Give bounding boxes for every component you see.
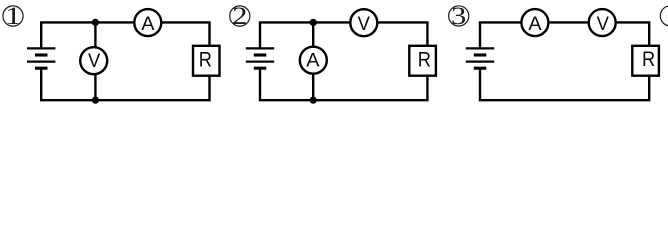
voltmeter V (circuit 2) [350, 9, 377, 36]
circuit 1 : top wire [41, 22, 209, 48]
circuit 2 : top wire [260, 22, 427, 48]
resistor R (circuit 3) [632, 46, 659, 76]
ammeter A (circuit 3) [521, 9, 548, 36]
svg-text:R: R [642, 48, 655, 72]
label circled 3 [449, 2, 469, 30]
svg-text:A: A [141, 13, 155, 35]
node junction 1 bottom [92, 97, 99, 104]
voltmeter V (circuit 3) [589, 9, 616, 36]
battery B3 [466, 48, 494, 68]
svg-text:R: R [418, 48, 431, 72]
svg-text:A: A [528, 13, 542, 35]
svg-text:1: 1 [5, 2, 21, 30]
circuit 2 : bottom wire [260, 68, 427, 100]
label circled 4 (partial at right edge) [660, 6, 668, 26]
resistor R (circuit 2) [409, 46, 436, 76]
ammeter A (circuit 1) [134, 9, 161, 36]
circuit 1 : bottom wire [41, 68, 209, 100]
voltmeter V (circuit 1) [80, 47, 107, 74]
svg-text:3: 3 [451, 2, 466, 30]
label circled 1 [3, 2, 23, 30]
node junction 2 top [310, 19, 317, 26]
svg-text:V: V [597, 13, 610, 35]
label circled 2 [230, 2, 250, 30]
wire branch 1 [94, 22, 96, 100]
ammeter A (circuit 2) [300, 47, 327, 74]
node junction 1 top [92, 19, 99, 26]
circuit 3 : bottom wire [480, 68, 649, 100]
svg-text:R: R [199, 48, 212, 72]
svg-text:A: A [306, 49, 320, 71]
svg-text:2: 2 [232, 2, 247, 30]
wire branch 2 [312, 22, 314, 100]
resistor R (circuit 1) [193, 46, 220, 76]
battery B1 [27, 48, 55, 68]
svg-text:V: V [88, 50, 101, 72]
node junction 2 bottom [310, 97, 317, 104]
svg-text:V: V [358, 13, 371, 35]
circuit 3 : top wire [480, 22, 649, 48]
battery B2 [246, 48, 274, 68]
